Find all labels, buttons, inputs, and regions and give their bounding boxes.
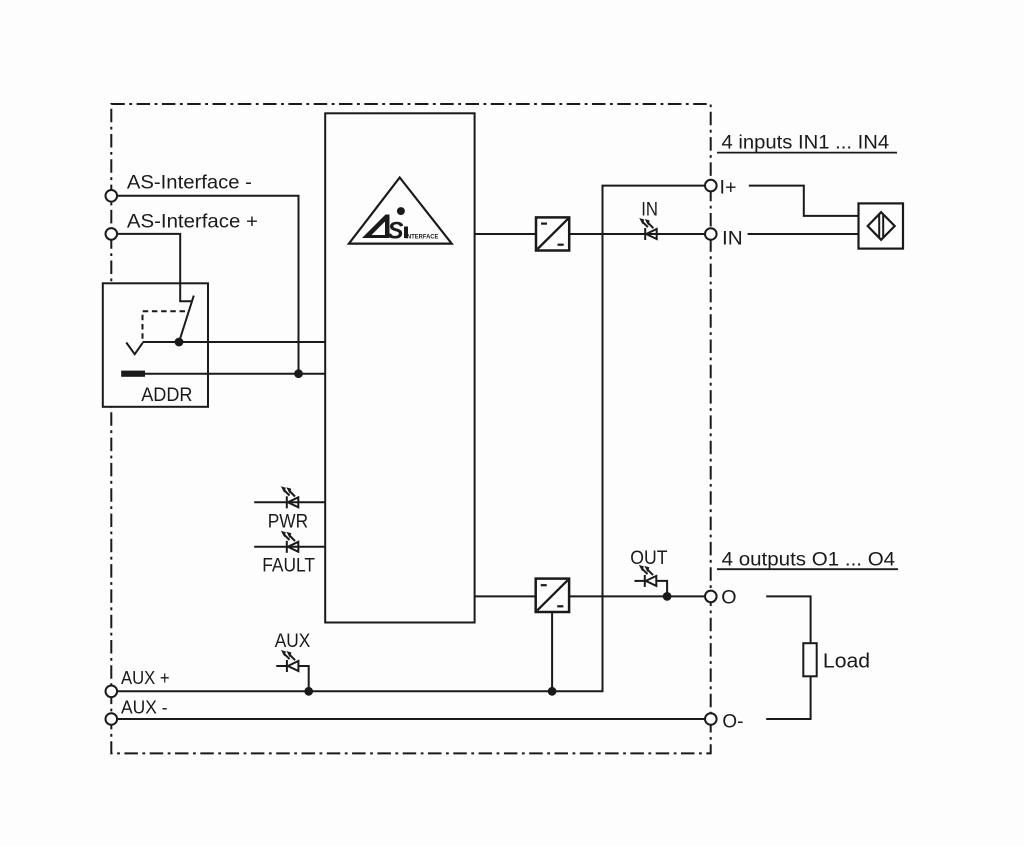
dashed linkage [143,311,186,342]
LED AUX [276,650,308,691]
wire load to O- [766,676,810,719]
wire FAULT LED stub [254,546,325,548]
svg-text:4 outputs O1 ... O4: 4 outputs O1 ... O4 [722,548,896,570]
central AS-i block [325,113,474,622]
svg-text:Load: Load [823,650,870,673]
manual actuator arrow [126,343,142,355]
svg-text:INTERFACE: INTERFACE [405,235,438,241]
sensor box [859,203,904,248]
terminal AS-i minus [106,190,118,202]
wire AS-Interface minus [117,196,298,374]
svg-text:IN: IN [641,200,658,221]
wire converter bottom to aux rail [551,612,553,691]
wire ADDR bar to AS-i block [145,373,325,375]
wire AS-Interface plus [117,234,192,301]
junction OUT LED [663,592,672,601]
svg-text:O-: O- [722,711,743,733]
load resistor [803,643,816,676]
power rail vertical [117,186,705,692]
title 4 inputs underline [717,152,897,154]
sensor diamond bars [878,215,880,237]
wire output converter to O terminal [569,595,705,597]
wire PWR LED stub [254,501,325,503]
terminal IN [705,228,717,240]
svg-text:AUX: AUX [275,631,311,652]
wire IN to sensor [748,233,859,235]
svg-text:PWR: PWR [268,510,308,532]
svg-text:FAULT: FAULT [262,555,315,577]
terminal O [705,591,717,603]
ADDR box [103,283,208,407]
svg-text:I+: I+ [720,177,737,199]
LED OUT [634,565,667,597]
terminal O- [705,713,717,725]
wire I+ to sensor [749,186,859,216]
wire block to input converter [475,233,536,235]
switch feed wire inside ADDR box [180,283,192,301]
terminal AS-i plus [106,228,118,240]
LED IN [639,218,657,240]
title 4 outputs underline [717,568,898,570]
svg-text:AUX +: AUX + [121,667,170,688]
switch pivot junction [175,338,184,347]
wire AUX minus rail [117,718,705,720]
junction converter bottom [548,687,557,696]
terminal I+ [705,180,717,192]
sensor diamond [868,212,895,240]
svg-text:AS-Interface -: AS-Interface - [127,172,252,194]
svg-text:IN: IN [722,227,743,249]
switch blade [179,296,194,342]
svg-text:4 inputs IN1 ... IN4: 4 inputs IN1 ... IN4 [722,131,890,153]
LED FAULT [281,531,299,553]
ASi logo letter A [362,215,390,239]
wire O to load [766,596,810,643]
ASi logo triangle [349,178,452,244]
junction AS-i minus / ADDR line [294,369,303,378]
wire switch output to AS-i block [143,341,326,343]
wire block to output converter [475,595,536,597]
LED PWR [281,486,299,508]
junction AUX LED [304,687,313,696]
svg-text:OUT: OUT [630,547,667,569]
svg-text:AUX -: AUX - [121,697,168,718]
module boundary dash-dot frame [111,104,710,753]
ADDR contact bar [121,371,145,377]
svg-text:O: O [721,587,736,609]
svg-text:ADDR: ADDR [141,385,192,406]
DC/DC converter output [536,579,569,612]
svg-text:S: S [388,217,404,244]
wire converter to IN terminal [569,233,705,235]
svg-text:AS-Interface +: AS-Interface + [127,211,258,233]
terminal AUX plus [106,686,118,698]
ASi logo letter i stem [404,227,408,239]
ASi logo i dot [397,207,405,215]
terminal AUX minus [106,713,118,725]
DC/DC converter input [536,217,569,250]
